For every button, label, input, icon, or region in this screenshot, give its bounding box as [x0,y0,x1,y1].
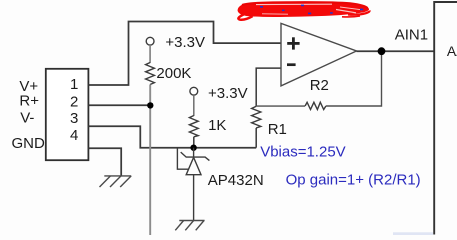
faint blue smudge bottom edge [393,232,433,235]
wire R1/R2 node to R2 left [256,105,305,107]
wire supply to 1K [193,95,195,116]
svg-text:4: 4 [70,127,78,144]
svg-text:3: 3 [70,110,78,127]
svg-text:+3.3V: +3.3V [165,34,205,51]
resistor R1 [252,106,261,128]
shunt regulator U2 AP432N [177,148,209,221]
svg-text:AA: AA [447,43,457,59]
svg-text:Op gain=1+ (R2/R1): Op gain=1+ (R2/R1) [286,172,421,189]
svg-text:AP432N: AP432N [208,172,264,189]
wire pin2 R+ to 200K bottom node [88,104,150,106]
wire supply to 200K [149,45,151,63]
svg-text:R1: R1 [268,121,287,138]
power port +3.3V (1K) [190,87,198,95]
node AP432N cathode junction [190,145,196,151]
svg-text:Vbias=1.25V: Vbias=1.25V [260,143,345,160]
svg-text:1: 1 [70,76,78,93]
svg-text:AIN1: AIN1 [395,27,428,44]
svg-text:GND: GND [12,135,46,152]
wire 200K bottom rail (gray, off bottom edge) [149,85,151,236]
svg-text:R2: R2 [310,77,329,94]
op-amp U1 [281,23,357,86]
svg-text:200K: 200K [156,65,191,82]
svg-text:V-: V- [20,110,34,127]
wire pin4 GND to ground [88,148,121,176]
node output junction [378,47,386,55]
red scribble redaction [238,2,370,19]
wire R1 bottom to Vbias rail [255,128,257,148]
node pin2/200K junction [147,102,153,108]
wire pin1 V+ to op-amp + input [88,22,280,86]
ADC box (right edge) [434,2,457,235]
ground (connector) [100,176,132,187]
op-amp + marking [287,37,299,49]
wire 1K bottom to node [193,137,195,148]
svg-text:1K: 1K [208,117,226,134]
resistor R2 [305,102,326,109]
svg-text:R+: R+ [19,93,39,110]
wire R2 right to output node (feedback) [326,51,382,106]
wire op-amp inverting input to R1 top [256,68,281,106]
connector J1 box [46,69,89,160]
wire pin3 V- to Vbias rail [88,126,256,148]
resistor 200K [146,63,155,85]
svg-text:+3.3V: +3.3V [208,85,248,102]
svg-text:2: 2 [70,94,78,111]
power port +3.3V (200K) [146,37,154,45]
resistor 1K [189,116,198,137]
wire op-amp output to ADC [357,50,435,52]
op-amp - marking [287,63,296,66]
ground (AP432N anode) [175,221,204,231]
